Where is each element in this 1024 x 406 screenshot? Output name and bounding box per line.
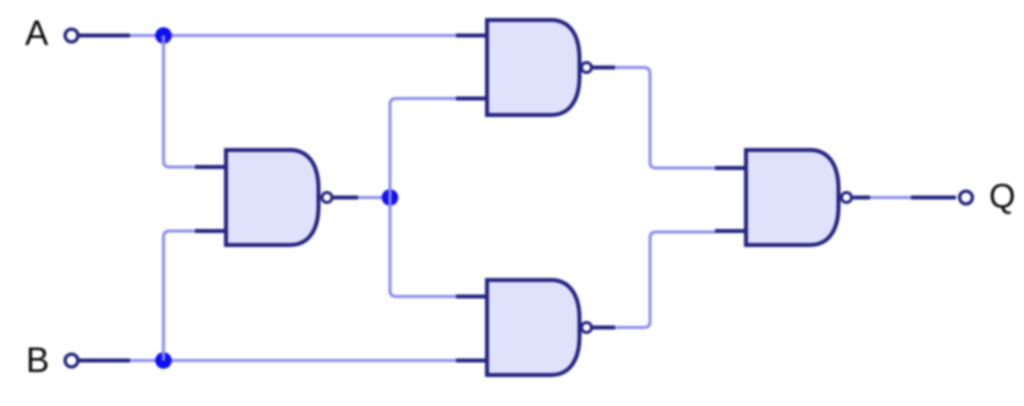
svg-text:Q: Q: [989, 178, 1015, 216]
wire U4 output pin: [853, 196, 870, 200]
wire node down to U3 top input: [390, 198, 457, 297]
nand gate U1 input pin stubs: [195, 165, 227, 169]
wire U4 output light segment: [870, 196, 911, 199]
wire node up to U2 bottom input: [390, 99, 457, 198]
nand gate U2: [487, 20, 580, 115]
wire U1 output to node: [358, 196, 390, 199]
wire U1 output pin: [333, 196, 358, 200]
svg-text:B: B: [26, 341, 49, 380]
nand U4 output bubble: [842, 193, 852, 203]
nand gate U1: [226, 150, 319, 245]
nand U1 output bubble: [322, 193, 332, 203]
wire U2 output to U4 top input: [615, 68, 716, 169]
nand U3 output bubble: [582, 323, 592, 333]
wire A down to U1 top input: [164, 36, 197, 168]
wire U3 output pin: [593, 326, 616, 330]
nand gate U3: [487, 280, 580, 375]
node A junction: [155, 27, 172, 44]
wire B horizontal to gate U3: [130, 359, 457, 362]
nand gate U2 input pin stubs: [456, 34, 488, 38]
node U1 output junction: [382, 189, 399, 206]
nand gate U3 input pin stubs: [456, 295, 488, 299]
wire U2 output pin: [593, 66, 616, 70]
svg-text:A: A: [25, 14, 49, 53]
wire Q pin: [911, 196, 956, 200]
input terminal A: [65, 29, 78, 42]
input terminal B: [65, 354, 78, 367]
wire B up to U1 bottom input: [164, 231, 197, 361]
wire U3 output to U4 bottom input: [615, 232, 716, 328]
node B junction: [155, 352, 172, 369]
nand U2 output bubble: [582, 63, 592, 73]
nand gate U4 input pin stubs: [715, 166, 747, 170]
output terminal Q: [960, 191, 973, 204]
wire A horizontal to gate U2: [130, 34, 457, 37]
nand gate U4: [746, 150, 839, 245]
wire B pin: [79, 359, 130, 363]
wire A pin: [79, 34, 130, 38]
